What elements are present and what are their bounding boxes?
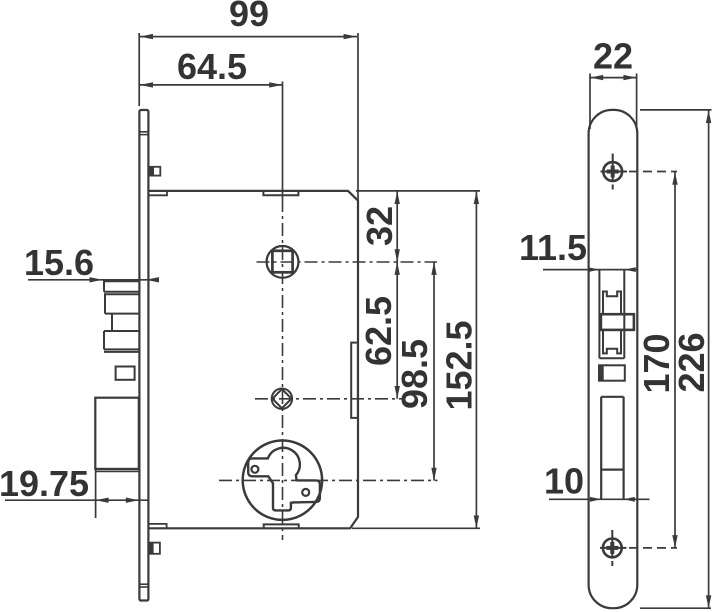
- svg-text:32: 32: [359, 206, 400, 246]
- svg-text:10: 10: [544, 461, 584, 502]
- svg-text:152.5: 152.5: [439, 320, 480, 410]
- svg-text:11.5: 11.5: [519, 227, 587, 268]
- svg-text:19.75: 19.75: [0, 463, 89, 504]
- svg-text:98.5: 98.5: [394, 339, 435, 409]
- svg-text:15.6: 15.6: [24, 242, 94, 283]
- svg-text:62.5: 62.5: [358, 296, 399, 366]
- svg-text:99: 99: [229, 0, 269, 34]
- svg-text:22: 22: [593, 36, 633, 77]
- svg-text:226: 226: [671, 332, 712, 392]
- svg-text:64.5: 64.5: [177, 46, 247, 87]
